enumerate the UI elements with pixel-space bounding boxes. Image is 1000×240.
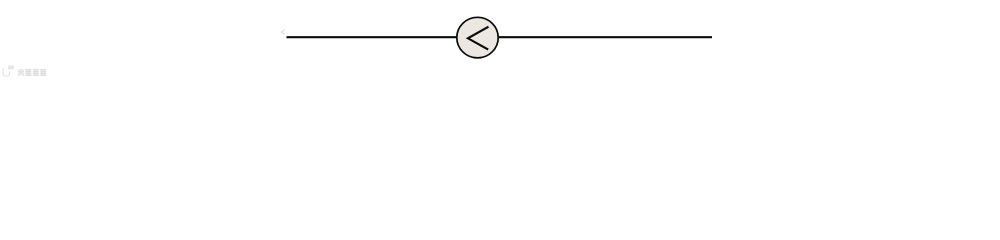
less-than mark inside U1 [468,27,489,50]
wire right segment [499,36,713,38]
wire left segment [287,36,458,38]
faint pencil smudge near left wire end [281,30,285,35]
watermark text blocks [18,69,47,76]
watermark logo icon [3,66,14,76]
source symbol U1 circle [457,17,498,58]
